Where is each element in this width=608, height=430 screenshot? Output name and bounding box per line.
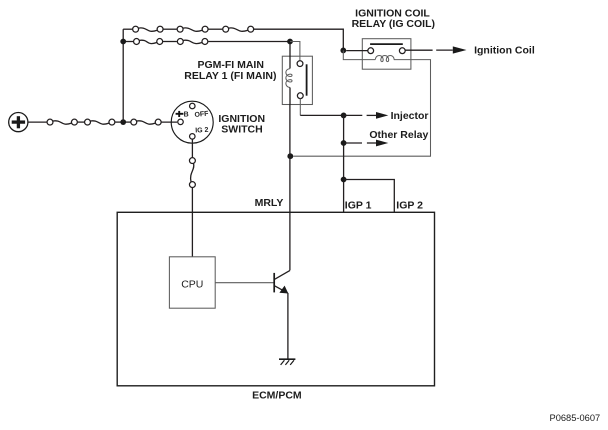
PGM-FI relay contact feed wire <box>290 42 300 61</box>
svg-text:RELAY (IG COIL): RELAY (IG COIL) <box>352 18 435 30</box>
junction node second rail / riser <box>120 39 126 45</box>
svg-text:CPU: CPU <box>181 279 203 291</box>
wire relay output to ignition coil arrow <box>405 49 453 51</box>
junction node other relay branch <box>341 140 347 146</box>
svg-text:IGP 2: IGP 2 <box>396 200 423 212</box>
connector pair on battery feed <box>47 119 77 125</box>
PGM-FI relay coil (MRLY coil) <box>286 44 292 105</box>
transistor Q1 base wire from CPU <box>215 282 273 284</box>
wire IG2 output down to ECM (CPU) <box>191 139 193 257</box>
svg-text:MRLY: MRLY <box>255 197 284 209</box>
IG coil relay contact bar <box>370 43 403 45</box>
junction node injector branch <box>341 113 347 119</box>
wire vertical riser from battery feed to top rails <box>122 29 124 122</box>
svg-text:Other Relay: Other Relay <box>369 129 428 141</box>
svg-text:ECM/PCM: ECM/PCM <box>252 389 302 401</box>
connector pair on top rail <box>223 26 254 32</box>
arrow to injector <box>344 112 389 119</box>
svg-text:P0685-0607: P0685-0607 <box>550 413 601 423</box>
arrow to ignition coil <box>453 46 467 53</box>
junction node IGP2 branch <box>341 177 347 183</box>
wire emitter to ground <box>287 293 289 359</box>
junction node +B feed to IG coil relay <box>340 48 346 54</box>
wire IGP2 branch <box>344 180 395 213</box>
junction node second rail / relay coil and contact feed <box>287 39 293 45</box>
battery positive supply symbol <box>9 113 28 132</box>
IG coil relay coil and return wire to MRLY node <box>293 50 430 156</box>
wire feed to relay left terminal <box>346 50 368 52</box>
PGM-FI relay contact top terminal <box>297 61 303 67</box>
PGM-FI relay contact bar <box>306 64 308 95</box>
svg-text:B: B <box>184 111 189 118</box>
connector pair on battery feed <box>131 119 161 125</box>
wire second rail to PGM-FI main relay <box>123 41 290 43</box>
svg-text:OFF: OFF <box>194 110 209 119</box>
wire injector feed <box>300 114 343 116</box>
IG coil relay right terminal <box>399 48 405 54</box>
svg-text:Ignition Coil: Ignition Coil <box>474 45 535 57</box>
svg-text:IG 2: IG 2 <box>195 127 209 135</box>
ECM/PCM box <box>117 212 434 385</box>
PGM-FI relay contact bottom terminal <box>297 93 303 99</box>
wire relay contact output down to injector node <box>299 99 301 116</box>
transistor Q1 <box>274 270 290 293</box>
junction node MRLY wire / relay coil return <box>287 153 293 159</box>
wire down from injector node to IGP nodes <box>343 115 345 212</box>
connector pair on second rail <box>134 39 163 45</box>
connector pair on second rail <box>177 39 207 45</box>
connector pair on battery feed <box>85 119 115 125</box>
connector pair on top rail <box>177 26 208 32</box>
svg-text:IGP 1: IGP 1 <box>345 200 372 212</box>
svg-text:RELAY 1 (FI MAIN): RELAY 1 (FI MAIN) <box>184 70 276 82</box>
ignition switch <box>171 101 213 143</box>
CPU box <box>169 257 215 308</box>
arrow to other relay <box>344 140 389 147</box>
svg-text:SWITCH: SWITCH <box>221 124 262 136</box>
wire top rail to IG coil relay <box>123 29 343 50</box>
wire battery feed to ignition switch <box>28 121 177 123</box>
connector pair on IG2 wire <box>189 158 195 188</box>
junction node battery feed / vertical riser <box>120 119 126 125</box>
connector pair on top rail <box>133 26 163 32</box>
IG coil relay left terminal <box>368 48 374 54</box>
PGM-FI main relay 1 box <box>282 56 312 104</box>
svg-text:Injector: Injector <box>391 110 429 122</box>
IG coil relay box <box>362 39 411 69</box>
ground <box>279 359 295 365</box>
wire MRLY from relay coil down into ECM <box>289 105 291 271</box>
